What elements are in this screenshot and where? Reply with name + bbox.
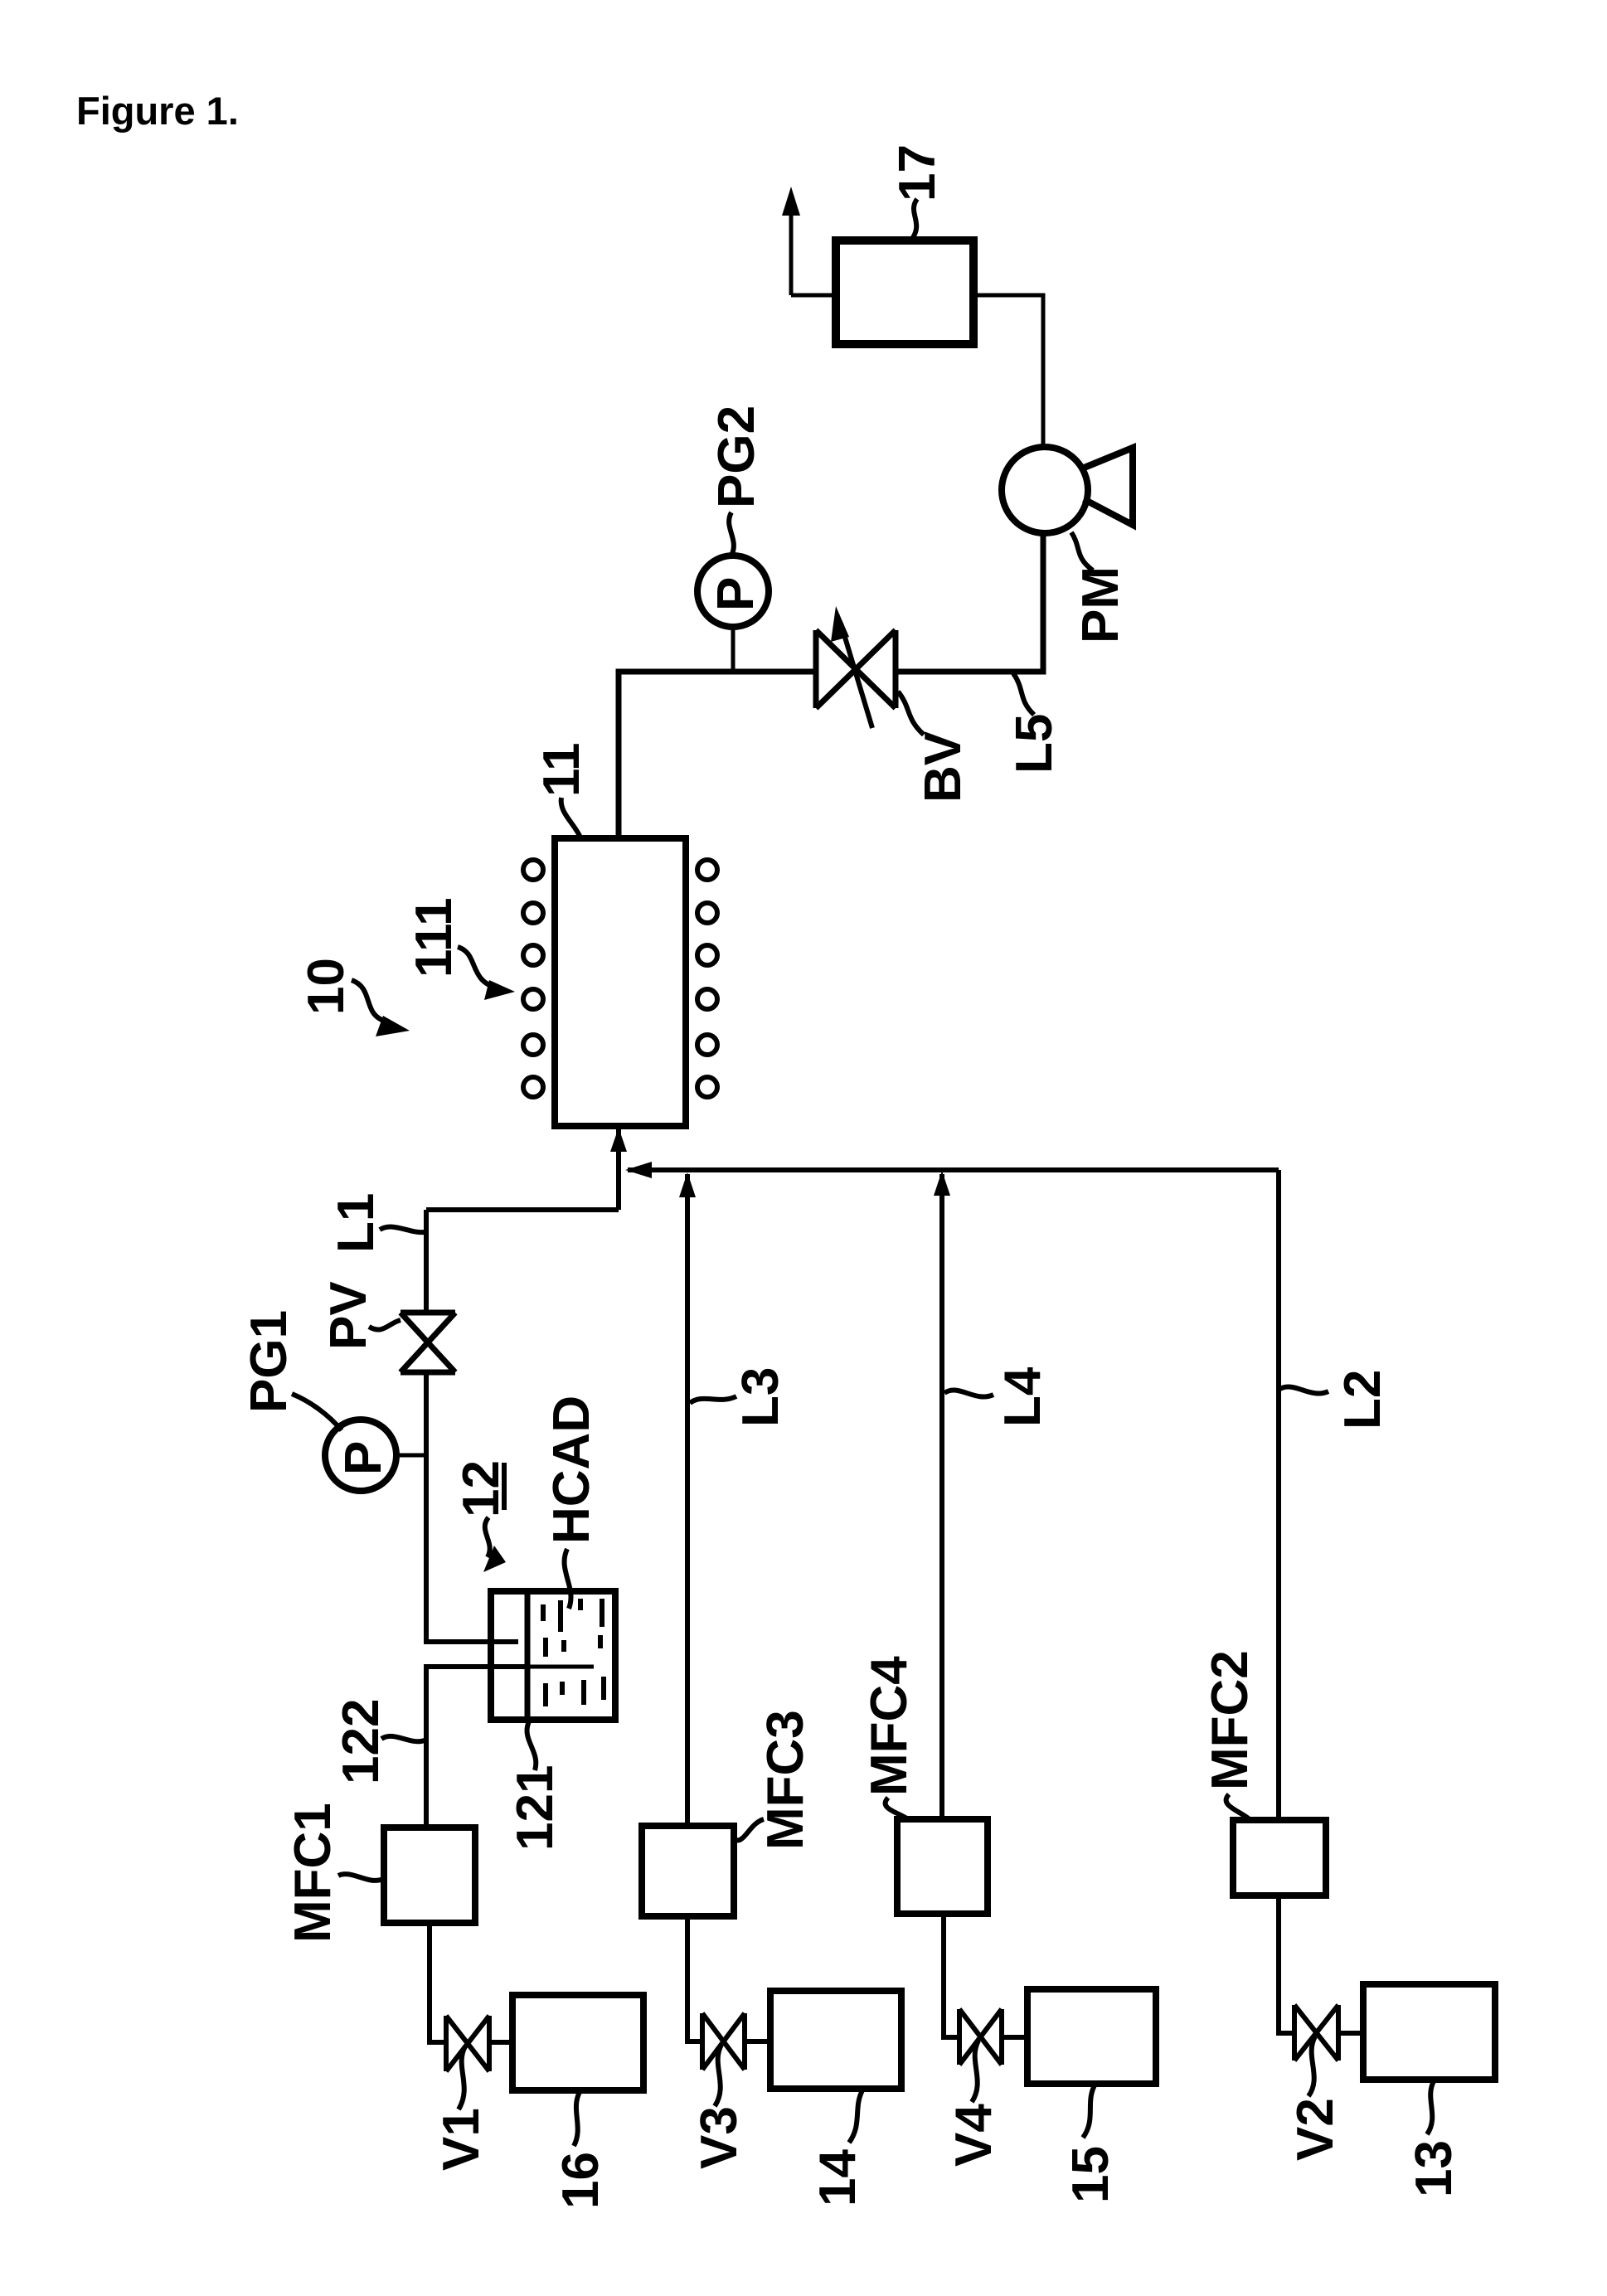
MFC1 (384, 1828, 475, 1923)
label MFC2 (1202, 1650, 1259, 1821)
label 14 (809, 2090, 867, 2206)
valve V3 (702, 2013, 745, 2070)
header wire from L2 (628, 1167, 1279, 1172)
svg-text:PV: PV (320, 1281, 377, 1350)
exhaust arrow (789, 199, 794, 295)
svg-text:122: 122 (333, 1699, 390, 1784)
wire MFC1 to V1 (430, 1923, 446, 2042)
label PG2 (708, 405, 765, 556)
svg-text:13: 13 (1406, 2140, 1463, 2197)
wire BV to furnace riser (619, 672, 816, 838)
svg-text:V2: V2 (1287, 2098, 1344, 2161)
wire PG2 stub (731, 627, 736, 672)
heater coil 111 right (697, 860, 717, 1097)
wire L4 (939, 1174, 944, 1819)
valve PV (401, 1313, 455, 1372)
label BV (898, 692, 972, 803)
wire L1 horizontal (426, 1207, 619, 1212)
label MFC3 (733, 1710, 814, 1850)
svg-text:MFC1: MFC1 (284, 1803, 342, 1943)
wire V3 to box14 (745, 2039, 770, 2044)
wire MFC4 to V4 (944, 1914, 959, 2037)
label 111 (405, 897, 515, 1000)
label PM (1071, 532, 1129, 643)
label V3 (691, 2045, 748, 2169)
label HCAD (543, 1396, 600, 1609)
wire V4 to box15 (1002, 2035, 1027, 2040)
bubbler vessel 12 (491, 1591, 615, 1720)
wire V2 to box13 (1338, 2031, 1363, 2036)
wire L2 (1276, 1170, 1281, 1820)
svg-text:Figure 1.: Figure 1. (76, 89, 239, 133)
label V1 (433, 2046, 490, 2171)
label 15 (1062, 2085, 1119, 2203)
gauge PG2 (697, 556, 769, 627)
wire box17 right (973, 295, 1043, 447)
source box 13 (1363, 1984, 1495, 2080)
svg-text:L2: L2 (1334, 1370, 1391, 1430)
scrubber box 17 (836, 240, 973, 344)
furnace 11 (555, 838, 686, 1126)
svg-text:L4: L4 (994, 1366, 1051, 1427)
MFC2 (1233, 1820, 1326, 1896)
label PG1 (240, 1310, 342, 1430)
label L3 (690, 1367, 789, 1427)
svg-text:11: 11 (533, 742, 590, 797)
valve V4 (959, 2009, 1002, 2065)
gauge PG1 (325, 1420, 396, 1491)
svg-text:PM: PM (1072, 566, 1129, 643)
wire box17 left (791, 294, 836, 298)
heater coil 111 left (523, 860, 543, 1097)
svg-text:MFC4: MFC4 (861, 1656, 918, 1796)
label 16 (552, 2092, 609, 2209)
liquid hatching (543, 1599, 604, 1706)
MFC4 (897, 1819, 988, 1914)
svg-text:L1: L1 (328, 1193, 385, 1253)
label 11 (533, 742, 590, 837)
svg-text:MFC2: MFC2 (1202, 1650, 1259, 1790)
dip tube (525, 1591, 531, 1720)
wire MFC1 to vessel (426, 1667, 527, 1828)
label 13 (1406, 2081, 1463, 2197)
source box 16 (512, 1995, 643, 2090)
svg-text:L3: L3 (732, 1367, 789, 1427)
wire L3 (685, 1174, 690, 1825)
svg-text:17: 17 (889, 144, 946, 201)
label V2 (1287, 2036, 1344, 2161)
svg-text:P: P (335, 1441, 392, 1475)
valve V2 (1294, 2005, 1338, 2061)
wire L5 pump drop (896, 533, 1043, 672)
wire PV to vessel (426, 1372, 518, 1642)
svg-text:PG1: PG1 (240, 1310, 298, 1413)
svg-text:V4: V4 (945, 2104, 1003, 2167)
source box 15 (1027, 1989, 1156, 2084)
svg-text:15: 15 (1062, 2146, 1119, 2203)
wire L1 down to PV (424, 1210, 429, 1313)
source box 14 (770, 1991, 901, 2089)
label PV (320, 1281, 401, 1350)
label 121 (507, 1721, 564, 1851)
svg-text:MFC3: MFC3 (757, 1710, 814, 1850)
svg-text:L5: L5 (1006, 714, 1063, 774)
svg-text:HCAD: HCAD (543, 1396, 600, 1544)
wire V1 to box16 (489, 2040, 512, 2045)
svg-text:10: 10 (298, 958, 355, 1015)
MFC3 (642, 1826, 734, 1916)
valve V1 (446, 2016, 489, 2071)
label V4 (945, 2041, 1003, 2167)
pump horn (1082, 448, 1133, 525)
svg-text:14: 14 (809, 2149, 867, 2206)
svg-text:V1: V1 (433, 2108, 490, 2171)
svg-text:111: 111 (405, 897, 463, 978)
label 12 underlined (453, 1460, 510, 1572)
furnace inlet arrow (616, 1129, 621, 1210)
svg-text:PG2: PG2 (708, 405, 765, 508)
label 122 (333, 1699, 425, 1784)
label MFC4 (861, 1656, 918, 1821)
svg-text:P: P (707, 577, 765, 611)
label L4 (944, 1366, 1051, 1427)
svg-text:BV: BV (915, 731, 972, 803)
svg-text:V3: V3 (691, 2106, 748, 2169)
label L1 (328, 1193, 425, 1253)
wire MFC2 to V2 (1279, 1896, 1294, 2033)
valve BV (816, 630, 896, 708)
label 17 (889, 144, 946, 239)
pump PM (1002, 447, 1088, 533)
valve BV arrow (841, 624, 872, 728)
svg-text:16: 16 (552, 2152, 609, 2209)
wire MFC3 to V3 (687, 1916, 702, 2041)
svg-text:12: 12 (453, 1460, 510, 1517)
label MFC1 (284, 1803, 383, 1943)
liquid level (527, 1665, 594, 1669)
label L2 (1279, 1370, 1391, 1430)
label L5 (1006, 673, 1063, 774)
wire PG1 stub (396, 1454, 426, 1458)
label 10 (298, 958, 410, 1036)
svg-text:121: 121 (507, 1765, 564, 1851)
